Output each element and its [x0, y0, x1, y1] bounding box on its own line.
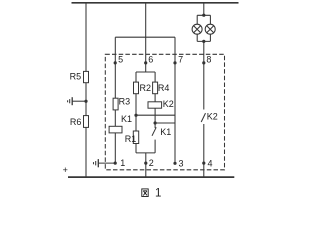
svg-text:R2: R2	[140, 83, 152, 93]
svg-text:R4: R4	[158, 83, 170, 93]
svg-text:5: 5	[118, 55, 123, 65]
svg-text:R3: R3	[119, 97, 131, 107]
svg-text:7: 7	[178, 55, 183, 65]
svg-text:+: +	[63, 165, 68, 175]
svg-text:2: 2	[149, 158, 154, 168]
svg-text:4: 4	[207, 158, 212, 168]
svg-text:K1: K1	[160, 127, 171, 137]
svg-text:K2: K2	[163, 99, 174, 109]
svg-text:K1: K1	[121, 114, 132, 124]
svg-text:R6: R6	[70, 117, 82, 127]
svg-text:R5: R5	[70, 72, 82, 82]
svg-text:K2: K2	[207, 112, 218, 122]
svg-text:8: 8	[206, 55, 211, 65]
svg-text:6: 6	[148, 55, 153, 65]
svg-text:R1: R1	[125, 134, 137, 144]
svg-text:1: 1	[120, 158, 125, 168]
svg-text:3: 3	[178, 158, 183, 168]
svg-text:1: 1	[155, 187, 161, 199]
